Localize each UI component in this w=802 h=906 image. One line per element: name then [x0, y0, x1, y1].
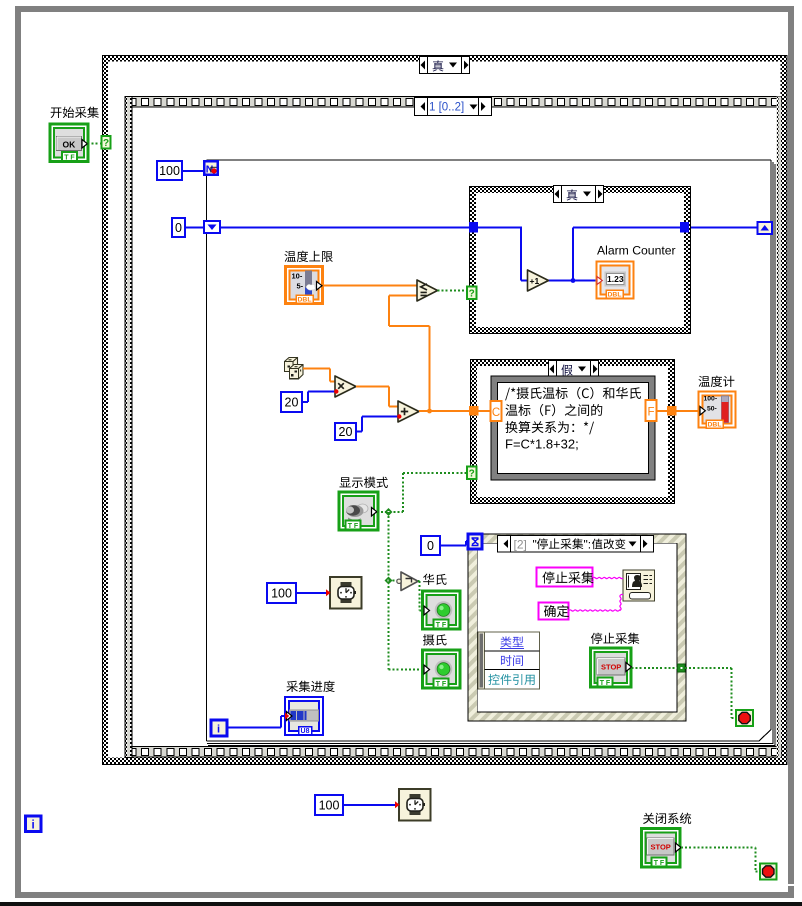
numeric constant 100 (wait ms): [267, 583, 296, 603]
wire 0 to shift register: [185, 227, 204, 229]
wire 100 to wait: [296, 592, 326, 594]
increment node +1: [528, 270, 549, 291]
svg-text:100: 100: [271, 586, 292, 600]
label 关闭系统: [643, 813, 691, 824]
case C3 selector label 假: [549, 361, 599, 378]
label 华氏: [423, 574, 447, 585]
svg-text:DBL: DBL: [708, 422, 722, 429]
wire tunnel to C: [479, 410, 491, 412]
svg-text:STOP: STOP: [601, 663, 621, 672]
svg-text:0: 0: [175, 221, 182, 235]
two-button dialog node: [623, 570, 655, 601]
svg-text:U8: U8: [301, 728, 310, 735]
svg-text:T F: T F: [436, 681, 447, 688]
sequence S1 selector label 1 [0..2]: [415, 98, 492, 116]
case C1 selector label 真: [420, 57, 470, 74]
comparator greater-or-equal node: [417, 280, 438, 301]
NOT gate: [397, 572, 418, 591]
label 停止采集 (button): [591, 633, 639, 644]
label 显示模式: [339, 477, 387, 488]
string constant 停止采集: [537, 568, 594, 587]
formula node output tunnel F: [646, 400, 657, 421]
wire OK to case selector: [88, 143, 103, 145]
svg-text:STOP: STOP: [651, 843, 671, 852]
numeric constant 100 (loop count): [157, 161, 182, 180]
while loop iteration terminal i: [26, 816, 42, 832]
wire i to progress bar: [227, 716, 285, 728]
label 采集进度: [286, 681, 334, 692]
label 温度计: [698, 376, 734, 387]
indicator 华氏 LED: [423, 591, 461, 629]
svg-text:C: C: [492, 407, 500, 419]
svg-text:T F: T F: [600, 680, 611, 687]
numeric constant 100 (outer wait ms): [315, 795, 343, 815]
wire tunnel to thermometer: [677, 410, 701, 412]
wire junction diamond 2: [385, 577, 393, 585]
numeric constant 20 (multiplier): [281, 392, 302, 412]
case structure C3 border (formula case): [470, 359, 675, 504]
svg-text:100: 100: [319, 798, 340, 812]
control 温度上限 slider (DBL): [286, 267, 323, 304]
window bottom edge: [0, 902, 802, 906]
wire 显示模式 to case C3 selector: [377, 473, 467, 512]
stacked sequence S1 border: [125, 97, 781, 758]
wire F to tunnel: [657, 410, 668, 412]
svg-text:100-: 100-: [704, 396, 718, 403]
svg-text:5-: 5-: [297, 282, 304, 291]
control 停止采集 STOP button: [591, 648, 632, 687]
wire 100 to outer wait: [343, 804, 395, 806]
svg-text:":: ":: [584, 537, 592, 551]
svg-text:F=C*1.8+32;: F=C*1.8+32;: [505, 437, 579, 452]
wire down to LEDs: [388, 512, 390, 670]
numeric constant 20 (offset): [335, 423, 356, 440]
wire slider to comparator: [323, 285, 417, 287]
label 摄氏: [423, 634, 447, 645]
svg-text:50-: 50-: [707, 406, 717, 413]
case structure C2 border (alarm case): [469, 186, 691, 334]
svg-text:F: F: [647, 407, 654, 419]
selector tunnel ? case C3: [467, 467, 477, 480]
control 开始采集 OK button: [50, 124, 88, 162]
wire temperature to case tunnel and comparator (junction): [389, 296, 469, 414]
wire +1 output to indicator and tunnel (junction): [549, 228, 681, 283]
wire NOT to 华氏 LED: [418, 581, 424, 611]
svg-text:?: ?: [469, 469, 475, 480]
svg-text:DBL: DBL: [608, 292, 622, 299]
shift register left (down arrow): [204, 221, 220, 233]
numeric constant 0 (timeout): [421, 536, 440, 555]
svg-text:?: ?: [103, 138, 109, 149]
event E1 selector label [2] 停止采集: 值改变: [498, 536, 654, 553]
wire to NOT gate: [389, 580, 398, 582]
while loop conditional terminal (stop): [760, 864, 777, 880]
wire event tunnel to loop condition: [685, 668, 736, 718]
svg-text:100: 100: [159, 164, 180, 178]
svg-text:20: 20: [285, 395, 299, 409]
for loop F1 border: [207, 160, 776, 746]
string wire 停止采集 to dialog: [593, 577, 623, 578]
wire junction diamond 1: [385, 508, 393, 516]
indicator 温度计 thermometer (DBL): [699, 392, 736, 429]
indicator 采集进度 progress bar (U8): [285, 697, 323, 735]
event structure timeout terminal (hourglass): [468, 534, 482, 549]
wire case C2 input to +1: [478, 228, 528, 281]
label 开始采集: [51, 107, 99, 118]
string wire 确定 to dialog: [569, 594, 623, 611]
selector tunnel ? case C1: [102, 136, 111, 149]
wire 20 to add (coerced): [356, 417, 398, 432]
for loop iteration terminal i: [211, 720, 227, 736]
svg-text:T F: T F: [64, 154, 75, 161]
wire to 摄氏 LED: [389, 669, 425, 671]
svg-text:0: 0: [427, 539, 434, 553]
wire 关闭系统 to while loop condition: [681, 848, 760, 872]
wait (ms) node: [326, 577, 362, 609]
wire case C2 tunnel to right shift register: [689, 227, 758, 229]
wire shift register to case C2 tunnel: [220, 227, 469, 229]
indicator Alarm Counter (DBL): [597, 244, 676, 299]
wire comparator to case C2 selector: [438, 290, 468, 292]
svg-text:DBL: DBL: [298, 297, 312, 304]
string constant 确定: [539, 603, 569, 620]
tunnel case C3 left (orange): [469, 406, 479, 416]
tunnel case C3 right (orange): [667, 406, 677, 416]
tunnel case C2 right (blue): [680, 222, 689, 233]
shift register right (up arrow): [758, 222, 773, 234]
case C2 selector label 真: [554, 186, 604, 203]
control 显示模式 rocker switch: [339, 492, 378, 530]
svg-text:": ": [533, 537, 537, 551]
svg-text:?: ?: [469, 289, 475, 300]
wire dice to multiply: [303, 369, 335, 382]
event structure E1 border: [468, 534, 686, 721]
svg-text:i: i: [217, 724, 220, 736]
outer wait (ms) node: [395, 789, 431, 821]
svg-text:1 [0..2]: 1 [0..2]: [429, 102, 464, 114]
svg-text:1.23: 1.23: [607, 274, 624, 284]
label 温度上限: [284, 251, 332, 262]
svg-text:[2]: [2]: [514, 537, 527, 551]
svg-text:T F: T F: [654, 860, 665, 867]
wire multiply to add: [356, 387, 398, 407]
svg-text:20: 20: [339, 425, 353, 439]
numeric constant 0 (shift register init): [172, 218, 185, 237]
wire 0 to timeout terminal: [440, 541, 468, 546]
svg-text:i: i: [32, 819, 35, 831]
wire 100 to N: [182, 170, 203, 172]
wire STOP to event tunnel: [632, 667, 678, 669]
formula node (C to F conversion): [491, 376, 655, 480]
wire 20 to multiply (coerced): [302, 392, 335, 403]
multiply node: [334, 376, 356, 397]
control 关闭系统 STOP button: [642, 829, 682, 868]
random number (dice) node: [285, 358, 304, 379]
for loop count terminal N (coerced): [203, 160, 219, 176]
svg-text:Alarm Counter: Alarm Counter: [597, 244, 676, 258]
svg-text:T F: T F: [436, 622, 447, 629]
svg-text:+1: +1: [530, 276, 540, 286]
add node: [397, 401, 419, 422]
event tunnel (boolean out): [678, 664, 686, 672]
svg-text:T F: T F: [348, 523, 359, 530]
indicator 摄氏 LED: [423, 650, 461, 688]
selector tunnel ? case C2: [467, 287, 477, 300]
svg-text:OK: OK: [63, 140, 77, 150]
case structure C1 border (true case shown): [102, 56, 788, 765]
event data node (类型/时间/控件引用): [478, 632, 540, 689]
svg-text:10-: 10-: [292, 272, 303, 281]
for loop conditional terminal (stop): [736, 710, 753, 726]
formula node input tunnel C: [491, 401, 502, 421]
tunnel case C2 left (blue): [469, 222, 478, 233]
